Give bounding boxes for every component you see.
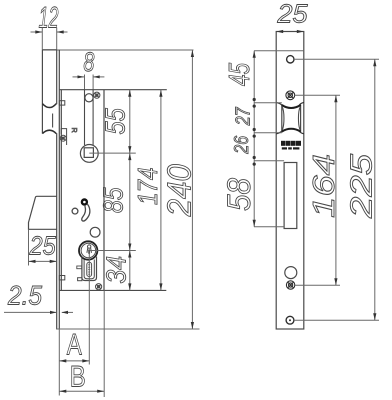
cylinder side lug xyxy=(77,266,82,269)
bottom hole xyxy=(286,316,294,324)
euro cylinder outer circle xyxy=(79,241,97,259)
arrowheads 240 xyxy=(191,50,194,329)
arrowheads 25 xyxy=(29,260,57,263)
svg-text:27: 27 xyxy=(232,107,254,126)
cylinder axis line xyxy=(88,251,90,365)
arrowheads 25 right xyxy=(276,30,304,33)
follower center extension line xyxy=(89,152,136,154)
made in spain xyxy=(282,147,300,149)
top hole xyxy=(287,56,294,63)
TESA logo xyxy=(281,141,301,146)
cylinder cam detail xyxy=(87,245,92,254)
circle above cylinder xyxy=(90,227,100,237)
roller waist line xyxy=(52,114,54,128)
leader 2.5 xyxy=(4,311,73,313)
arrowheads 225 xyxy=(373,59,376,320)
curved slot head xyxy=(82,200,87,205)
screw bottom right xyxy=(96,284,102,290)
svg-text:45: 45 xyxy=(224,62,256,86)
dim line 55-85-34 vertical xyxy=(129,90,131,291)
bracket mid left xyxy=(61,129,66,145)
roller upper arc xyxy=(42,104,56,108)
arrowheads A xyxy=(59,359,89,362)
svg-text:164: 164 xyxy=(306,154,341,218)
bottom hole leader xyxy=(294,319,379,321)
screw hole upper xyxy=(286,91,295,100)
cylinder center extension line xyxy=(89,250,136,252)
case top edge + extension xyxy=(59,89,167,91)
dim line B xyxy=(59,390,104,392)
arrowheads 8 xyxy=(78,75,100,78)
roller lower arc xyxy=(42,130,56,133)
follower circle xyxy=(80,145,98,163)
svg-text:240: 240 xyxy=(161,164,198,218)
svg-text:58: 58 xyxy=(221,178,257,211)
deadbolt wedge xyxy=(29,196,57,229)
svg-text:25: 25 xyxy=(276,0,308,28)
small circle left of slot xyxy=(72,208,78,214)
arrowheads B xyxy=(59,390,104,393)
dim line 25 xyxy=(29,260,57,262)
extension lines 25 xyxy=(28,229,30,265)
top extension line (faceplate top level) xyxy=(42,49,193,51)
arrowheads 174 xyxy=(159,90,162,291)
case bottom edge + extension xyxy=(59,289,166,291)
slot extension lines 8 xyxy=(85,75,94,90)
roller bottom edge xyxy=(282,129,301,132)
arrowheads 164 xyxy=(334,95,337,285)
svg-text:225: 225 xyxy=(344,153,379,219)
cylinder body xyxy=(82,257,97,281)
svg-text:12: 12 xyxy=(39,2,59,35)
dim line 12 xyxy=(31,31,68,33)
screw top right xyxy=(94,92,100,98)
roller front view xyxy=(282,105,301,133)
plate outline xyxy=(276,32,304,330)
cylinder keyway slot xyxy=(87,262,92,276)
svg-text:25: 25 xyxy=(29,231,56,261)
bolt cutout xyxy=(284,163,297,229)
dim line 174 vertical xyxy=(160,90,162,291)
faceplate edge-on pair xyxy=(57,50,60,329)
svg-text:2.5: 2.5 xyxy=(7,281,43,311)
svg-text:174: 174 xyxy=(132,167,163,205)
left chain dim line xyxy=(253,51,255,227)
screw hole lower xyxy=(286,281,294,289)
left chain extension lines xyxy=(254,103,284,227)
follower square xyxy=(84,148,93,158)
clip top on faceplate xyxy=(59,101,65,105)
dim line 8 xyxy=(73,76,105,78)
roller top edge xyxy=(282,105,301,108)
lever circle xyxy=(85,94,93,102)
svg-text:B: B xyxy=(70,361,86,394)
chain arrowheads xyxy=(253,51,256,227)
extension lines A B xyxy=(59,290,104,397)
screw upper leader xyxy=(295,94,340,96)
arrowheads 2.5 xyxy=(50,311,68,314)
lock case outline xyxy=(61,90,104,291)
roller opening arcs xyxy=(276,102,282,105)
top hole leader xyxy=(294,58,379,60)
screw mid left xyxy=(60,135,66,141)
faceplate bottom extension line xyxy=(56,328,200,330)
svg-text:55: 55 xyxy=(100,108,131,135)
svg-text:34: 34 xyxy=(100,256,131,284)
curved slot body xyxy=(82,204,90,221)
svg-text:8: 8 xyxy=(83,47,94,77)
arrowheads 12 xyxy=(35,30,63,33)
bottom hole center mark xyxy=(289,319,291,321)
keyway text marks xyxy=(88,265,90,274)
dim line 240 vertical xyxy=(191,50,193,329)
roller housing strip xyxy=(42,50,56,134)
arrowheads 55-85-34 xyxy=(128,90,131,291)
svg-text:A: A xyxy=(67,329,82,362)
dim line A xyxy=(59,360,89,362)
cylinder foot tab xyxy=(78,278,82,281)
svg-text:26: 26 xyxy=(231,135,253,154)
svg-text:85: 85 xyxy=(97,187,128,213)
cylinder inner circle xyxy=(81,243,96,258)
circle above screw lower xyxy=(285,267,297,279)
dim line 225 xyxy=(374,59,376,320)
dim line 164 xyxy=(335,95,337,285)
clip bottom on faceplate xyxy=(59,276,65,280)
plate feature line xyxy=(254,50,304,52)
svg-text:R: R xyxy=(70,128,77,133)
screw lower leader xyxy=(295,284,340,286)
extension lines 12 xyxy=(42,28,56,50)
lever slot walls xyxy=(85,90,94,146)
